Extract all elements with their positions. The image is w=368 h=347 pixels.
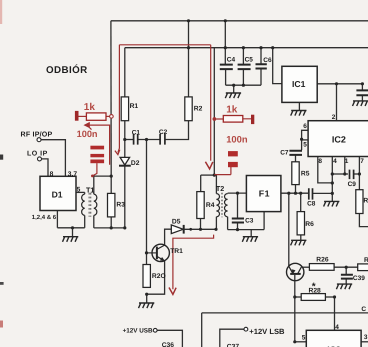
wire IC2 pin 4 to ground (331, 157, 333, 202)
resistor R1 (121, 97, 128, 121)
wire R1 top lead (124, 48, 126, 97)
wire IC8 pin 3 lead (361, 341, 368, 343)
junction cap ground bus C5 (242, 84, 245, 87)
svg-text:R3: R3 (116, 202, 125, 209)
wire D1 pin 5 to T1 (76, 191, 85, 193)
wire edge cap top lead (361, 84, 363, 90)
svg-text:5: 5 (77, 187, 81, 194)
IC2 (308, 121, 368, 157)
wire R4 top lead (200, 175, 202, 192)
terminal RF IP/OP (37, 138, 41, 142)
junction pin4 net / pin8 (331, 181, 334, 184)
svg-text:*: * (312, 282, 316, 293)
junction rail / C4 (224, 46, 227, 49)
junction rail / R2 (187, 46, 190, 49)
junction R1 / C1 / D2 (123, 138, 126, 141)
wire C6 top lead (260, 48, 262, 64)
wire red arrow-2 line (87, 125, 109, 165)
svg-text:IC2: IC2 (332, 134, 346, 144)
junction C1 / C2 / TR1 base (145, 138, 148, 141)
svg-text:100n: 100n (226, 134, 248, 145)
resistor R (right edge vertical) (356, 190, 363, 214)
wire D1 pins 1,2,4,6 down (56, 211, 58, 228)
wire R28 right lead (325, 296, 334, 298)
terminal LO IP (38, 157, 42, 161)
svg-text:RF IP/OP: RF IP/OP (21, 130, 53, 138)
wire R28 to IC8 pin4 (334, 297, 336, 330)
svg-text:R2O: R2O (152, 273, 166, 280)
terminal +12V LSB (244, 327, 248, 331)
wire edge resistor bottom lead (359, 214, 368, 227)
ground G3 stem (298, 102, 300, 110)
svg-text:T1: T1 (86, 185, 94, 194)
ground G9 stem (345, 279, 347, 284)
wire mixer output to TR1 base (146, 140, 148, 253)
wire IC2 pin 7 lead (358, 157, 360, 190)
wire Q2 base down (294, 275, 296, 297)
svg-text:8: 8 (50, 171, 54, 178)
resistor R5 (292, 162, 299, 185)
resistor R (right edge horizontal, cut) (358, 264, 368, 271)
junction Q2 base / R28 (293, 295, 296, 298)
wire R4 bottom lead (200, 219, 202, 230)
red arrowhead at arrow-2 (85, 123, 90, 128)
wire T2 secondary bottom lead (227, 217, 229, 230)
ground G2 stem (72, 228, 74, 237)
capacitor C1 (134, 134, 138, 145)
junction bias net / R3 (110, 226, 113, 229)
svg-text:R5: R5 (301, 171, 310, 178)
wire R26 right junction (334, 266, 358, 268)
wire red 100n-right bottom lead (230, 167, 232, 175)
junction cap ground bus (232, 84, 235, 87)
wire T1 secondary top lead (93, 176, 95, 194)
junction R20 / emitter (145, 293, 148, 296)
wire C7 bottom lead (295, 155, 297, 162)
red arrowhead at TR1 (169, 288, 176, 295)
wire IC2 pin 8 lead (318, 157, 333, 183)
junction rail / C6 (259, 46, 262, 49)
wire C5 bottom lead (242, 69, 244, 85)
capacitor C4 (220, 65, 233, 70)
wire F1 output net (281, 192, 309, 194)
resistor R3 (108, 193, 115, 217)
wire IC1 out to IC2 pin2 (336, 84, 338, 121)
svg-text:R6: R6 (305, 221, 314, 228)
svg-text:R: R (364, 257, 368, 264)
ground G7 stem (300, 235, 302, 240)
wire C3 bottom lead (237, 223, 239, 230)
wire C4 bottom lead (225, 69, 227, 85)
wire red 100n-left bottom lead (93, 163, 97, 176)
junction D5 net / T2 (214, 228, 217, 231)
wire IC1 output (317, 83, 362, 85)
diode D5 (171, 225, 183, 234)
IC8 (bottom, cut) (306, 330, 361, 347)
capacitor C8 (309, 188, 313, 199)
capacitor 100n (red, left) (90, 146, 104, 164)
svg-text:C4: C4 (227, 57, 236, 64)
junction R26 / C39 (345, 266, 348, 269)
wire R6 top lead (300, 193, 302, 211)
wire C7 top lead (301, 139, 303, 150)
wire R20 top lead (146, 253, 148, 265)
wire +12V USB to C36 (157, 330, 182, 347)
resistor 1k (red, left) (75, 111, 113, 121)
svg-text:1k: 1k (226, 104, 238, 115)
wire C4-C6 ground bus (226, 84, 261, 86)
wire R5 bottom lead (295, 185, 297, 194)
wire R1 bottom lead to D2 (124, 121, 126, 158)
svg-text:C1: C1 (132, 129, 141, 136)
wire red node A to 100n-right (214, 174, 231, 176)
ground G1 (C4-C6 bus) (225, 93, 241, 98)
svg-text:C: C (361, 306, 366, 313)
svg-text:IC1: IC1 (292, 79, 306, 89)
resistor R20 (143, 265, 150, 288)
wire bus to C4 drop (224, 21, 226, 65)
IC D1 (mixer) (40, 176, 76, 210)
junction D1 ground (71, 226, 74, 229)
wire bus to R2 drop (188, 21, 190, 97)
junction C3 bottom (236, 228, 239, 231)
wire rail drop to node A (213, 48, 215, 175)
wire T1 primary bottom lead (84, 215, 86, 227)
svg-text:+12V USB: +12V USB (123, 328, 153, 335)
resistor R6 (297, 212, 304, 235)
wire IC2 pin 6 lead (302, 130, 309, 139)
svg-text:3,7: 3,7 (68, 171, 78, 178)
capacitor 100n (red, right) (228, 151, 238, 167)
junction pin1 / C9 (343, 172, 346, 175)
wire T2 primary bottom lead (215, 217, 217, 230)
wire F1 bottom lead (263, 212, 265, 230)
ground G5 (TR1/R20) (139, 303, 155, 308)
junction IC1 out / edge cap (361, 82, 364, 85)
wire C6 bottom lead (260, 69, 262, 86)
wire F1 out to Q2 emitter (288, 193, 290, 266)
svg-text:C9: C9 (348, 181, 357, 188)
scan artifact black dash left edge (0, 282, 4, 285)
wire C8 right lead (313, 192, 333, 194)
capacitor C3 (232, 219, 244, 223)
wire edge cap bottom lead (361, 96, 363, 101)
wire secondary ground net (228, 229, 265, 231)
svg-text:C7: C7 (280, 149, 289, 156)
red junction dot (1k right / node A drop) (213, 117, 217, 121)
capacitor C6 (256, 64, 267, 68)
svg-text:1k: 1k (84, 102, 96, 113)
wire C39 top lead (345, 267, 347, 274)
junction IC1 out / pin2 (335, 82, 338, 85)
scan artifact pink sliver top-left (0, 0, 2, 24)
wire RF terminal to D1 pin 3,7 (41, 140, 65, 177)
svg-text:C5: C5 (245, 57, 254, 64)
wire red 1k right leads (216, 118, 251, 120)
svg-text:R1: R1 (130, 103, 139, 110)
svg-text:D5: D5 (172, 219, 181, 226)
capacitor C2 (160, 134, 165, 145)
terminal +12V USB (153, 328, 157, 332)
ground G6 (F1/C3) (242, 237, 258, 242)
ground G9 (C39) (336, 284, 352, 289)
wire red 1k right lead to terminal (106, 115, 110, 117)
ground G4 (edge cap) (353, 101, 368, 106)
junction F1 out / R6 (299, 192, 302, 195)
wire T2 secondary top to F1 (228, 192, 247, 194)
wire secondary bias net (94, 227, 125, 229)
scan artifact black mark left edge (0, 155, 3, 160)
wire C1 to C2 (138, 139, 160, 141)
svg-text:4: 4 (333, 158, 337, 165)
wire Q2 base net to IC8 pin5 (294, 297, 296, 342)
scan artifact red dash bottom-left edge (0, 321, 3, 328)
junction R28 / pin4 drop (333, 295, 336, 298)
resistor R2 (185, 97, 192, 121)
wire +12V LSB to C37 (220, 329, 244, 347)
junction T2 sec / C3 (236, 192, 239, 195)
transistor Q2 (unlabelled, near R26) (287, 263, 304, 280)
wire TR1 emitter down (147, 261, 165, 294)
junction F1 out / R5 (294, 192, 297, 195)
wire T1 secondary top (92, 175, 111, 177)
junction top bus / C4 (224, 19, 227, 22)
svg-text:1: 1 (345, 158, 349, 165)
filter F1 (246, 176, 281, 212)
svg-text:3: 3 (364, 334, 368, 341)
wire IC8 pin 5 lead (295, 341, 307, 343)
wire T1 secondary bottom lead (93, 215, 95, 228)
capacitor C5 (238, 65, 251, 70)
wire R28 left lead (295, 296, 301, 298)
wire D2 cathode down (124, 166, 126, 228)
ground G2 (D1/T1) (63, 237, 79, 242)
junction base net / pin5 (293, 340, 296, 343)
svg-text:TR1: TR1 (170, 248, 183, 255)
junction pin4 net / C8 (331, 192, 334, 195)
junction top bus / R2 (187, 19, 190, 22)
wire red 1k left lead (79, 115, 87, 117)
IC1 (282, 66, 317, 102)
svg-text:LO IP: LO IP (27, 150, 48, 157)
svg-text:R4: R4 (206, 202, 215, 209)
wire pin4 to C9 (332, 173, 348, 175)
wire second rail (125, 47, 368, 49)
junction F1 out / Q2 (287, 192, 290, 195)
wire C1 left lead (125, 139, 134, 141)
svg-text:8: 8 (318, 158, 322, 165)
ground G5 stem (146, 294, 148, 303)
junction IC2 pin5/6 (300, 138, 303, 141)
ground G1 stem (233, 85, 235, 93)
wire D1 ground net (57, 227, 84, 229)
wire T2 primary top lead (215, 175, 217, 194)
svg-text:C36: C36 (162, 342, 175, 347)
capacitor C9 (350, 170, 354, 180)
svg-text:C39: C39 (353, 275, 365, 282)
wire red drop to node A arrow (210, 45, 212, 161)
wire rail to IC1 input (273, 48, 282, 84)
svg-text:C2: C2 (159, 129, 168, 136)
red arrowhead at node A (205, 162, 212, 169)
junction node A (213, 174, 216, 177)
svg-text:C3: C3 (245, 218, 254, 225)
wire Q2 collector to R26 (302, 266, 309, 268)
svg-text:D2: D2 (131, 160, 140, 167)
svg-text:5: 5 (302, 335, 306, 342)
wire R3 bottom lead (110, 217, 112, 228)
wire LO terminal to D1 pin 8 (42, 159, 49, 176)
wire C2 to R2 bottom (165, 121, 189, 140)
svg-text:2: 2 (332, 114, 336, 121)
wire left vertical drop from bus (110, 21, 112, 176)
wire top supply bus (111, 20, 368, 22)
junction T1 sec / R3 (110, 175, 113, 178)
resistor R28 (301, 294, 325, 301)
wire red annotation to TR1 (173, 235, 214, 290)
red arrowhead at D2 (115, 150, 120, 155)
wire IC2 pin 5 lead (302, 139, 309, 141)
wire C5 top lead (242, 48, 244, 65)
wire IC2 pin 1 lead (344, 157, 346, 175)
ground G8 (IC2 pin4/C8) (324, 201, 340, 206)
wire node A horizontal (201, 174, 217, 176)
svg-text:7: 7 (360, 158, 364, 165)
red mark at T1 secondary (91, 175, 94, 178)
ground G7 (R6) (291, 240, 307, 245)
resistor R4 (197, 192, 204, 219)
capacitor C39 (341, 275, 353, 279)
capacitor at right edge after IC1 (356, 90, 368, 95)
resistor 1k (red, right) (223, 115, 254, 124)
wire TR1 collector to D5 (165, 229, 172, 245)
diode D2 (119, 157, 131, 165)
wire bottom rail drop (201, 313, 203, 347)
svg-text:5: 5 (303, 141, 307, 148)
junction rail / C5 (242, 46, 245, 49)
svg-text:6: 6 (303, 123, 307, 130)
svg-text:C6: C6 (263, 57, 272, 64)
svg-text:C8: C8 (307, 200, 316, 207)
svg-text:D1: D1 (52, 189, 63, 199)
capacitor C7 (289, 151, 302, 155)
svg-text:R26: R26 (316, 257, 329, 264)
transformer T2 (216, 193, 227, 217)
wire long bottom rail (202, 312, 368, 314)
wire red drop to D2 arrow (118, 45, 120, 153)
wire C3 top lead (237, 193, 239, 218)
ground G3 (IC1) (291, 111, 307, 116)
svg-text:4: 4 (335, 324, 339, 331)
svg-text:ODBIÓR: ODBIÓR (46, 64, 88, 76)
resistor R26 (309, 264, 334, 271)
wire D5 cathode net (184, 228, 217, 230)
transistor TR1 (147, 244, 170, 261)
junction TR1 base / R20 (145, 251, 148, 254)
junction D5 cathode (189, 228, 192, 231)
svg-text:+12V LSB: +12V LSB (249, 327, 285, 336)
junction pin4 net / C9 (331, 172, 334, 175)
wire R3 top lead (110, 176, 112, 193)
wire red tick below arrow-2 (90, 128, 92, 130)
junction bias net / D2 (123, 226, 126, 229)
wire red annotation top line (119, 44, 210, 46)
svg-text:T2: T2 (216, 184, 224, 193)
ground G6 stem (250, 230, 252, 237)
svg-text:100n: 100n (77, 129, 98, 139)
svg-text:1,2,4 & 6: 1,2,4 & 6 (32, 214, 57, 221)
wire C9 right lead (354, 173, 360, 175)
svg-text:C37: C37 (227, 343, 240, 347)
junction D5 net / R4 (199, 228, 202, 231)
svg-text:F1: F1 (259, 189, 270, 199)
svg-text:R: R (363, 197, 368, 204)
transformer T1 (82, 192, 97, 216)
junction C9 / pin7 (358, 172, 361, 175)
svg-text:R2: R2 (194, 105, 203, 112)
junction rail / IC1 branch (271, 46, 274, 49)
